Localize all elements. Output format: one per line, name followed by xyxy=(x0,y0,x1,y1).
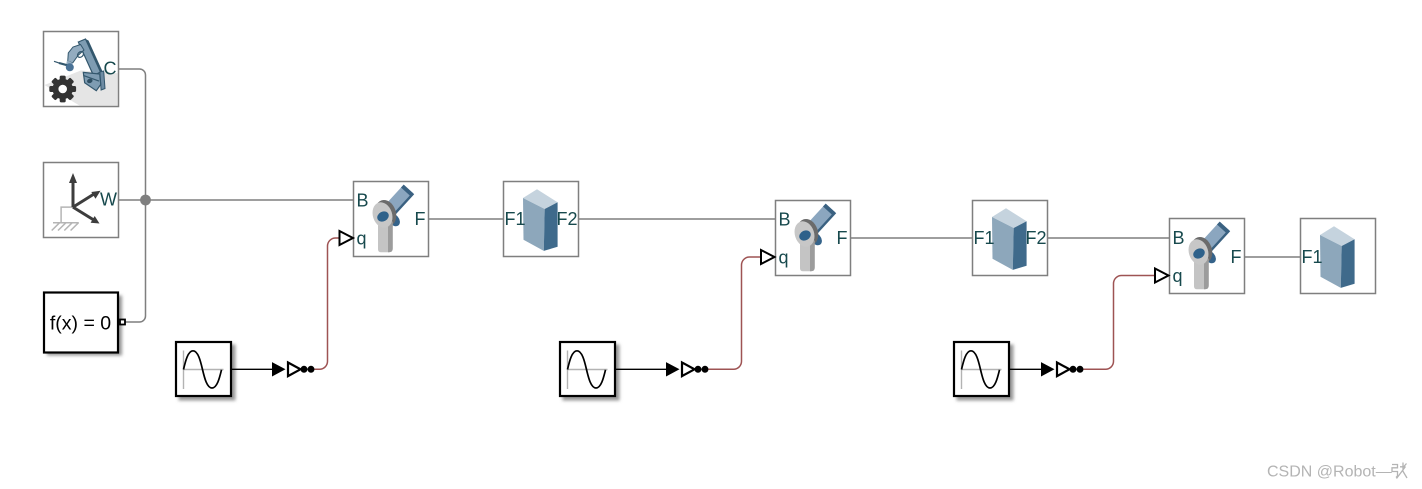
PS wire Converter 3 to Revolute Joint 3 q xyxy=(1084,276,1156,370)
svg-text:q: q xyxy=(1173,266,1183,286)
block Sine Wave 2 xyxy=(560,342,620,401)
wire Sine Wave 3 to Simulink-PS Converter 3 xyxy=(1010,368,1042,370)
block Sine Wave 3 xyxy=(954,342,1014,401)
wire Revolute Joint 2 F to Brick Solid 2 F1 xyxy=(851,237,973,239)
block Revolute Joint 1 xyxy=(354,182,429,257)
svg-text:F: F xyxy=(1231,247,1242,267)
solver port square xyxy=(120,320,125,325)
svg-text:B: B xyxy=(779,210,791,230)
svg-text:B: B xyxy=(1173,228,1185,248)
block Brick Solid 2 xyxy=(973,201,1048,276)
block Revolute Joint 3 xyxy=(1170,219,1245,294)
wire Brick Solid 2 F2 to Revolute Joint 3 B xyxy=(1048,237,1170,239)
wire Sine Wave 1 to Simulink-PS Converter 1 xyxy=(232,368,273,370)
svg-text:F: F xyxy=(837,228,848,248)
PS wire Converter 2 to Revolute Joint 2 q xyxy=(709,257,761,369)
wire Revolute Joint 3 F to Brick Solid 3 F1 xyxy=(1245,256,1301,258)
PS wire Converter 1 to Revolute Joint 1 q xyxy=(315,238,340,369)
svg-text:q: q xyxy=(779,248,789,268)
block World Frame xyxy=(44,163,119,238)
svg-text:C: C xyxy=(104,59,117,79)
svg-text:F1: F1 xyxy=(1302,247,1323,267)
wire Revolute Joint 1 F to Brick Solid 1 F1 xyxy=(429,218,504,220)
wire from Mechanism Configuration C port down to Solver port, vertical bus x=145.5 xyxy=(119,69,146,322)
svg-text:F2: F2 xyxy=(556,209,577,229)
wire from World Frame W port to Revolute Joint 1 B port xyxy=(119,199,354,201)
block Sine Wave 1 xyxy=(176,342,236,401)
junction node on conserving bus xyxy=(140,195,151,206)
wire Sine Wave 2 to Simulink-PS Converter 2 xyxy=(616,368,667,370)
block Brick Solid 1 xyxy=(504,182,579,257)
svg-text:f(x) = 0: f(x) = 0 xyxy=(50,313,111,335)
Simulink-PS Converter 1 xyxy=(272,362,315,376)
svg-text:W: W xyxy=(100,190,117,210)
block Revolute Joint 2 xyxy=(776,201,851,276)
svg-text:q: q xyxy=(357,229,367,249)
wire Brick Solid 1 F2 to Revolute Joint 2 B xyxy=(579,218,776,220)
block Solver Configuration f(x)=0 xyxy=(44,293,122,356)
input arrow at q port of Revolute Joint 1 xyxy=(340,231,354,245)
block Mechanism Configuration xyxy=(44,32,119,107)
input arrow at q port of Revolute Joint 2 xyxy=(761,250,775,264)
svg-text:F: F xyxy=(415,209,426,229)
input arrow at q port of Revolute Joint 3 xyxy=(1155,269,1169,283)
svg-text:CSDN @Robot—: CSDN @Robot— xyxy=(1267,464,1392,481)
svg-text:F1: F1 xyxy=(505,209,526,229)
Simulink-PS Converter 2 xyxy=(666,362,709,376)
svg-text:B: B xyxy=(357,191,369,211)
svg-text:F2: F2 xyxy=(1025,228,1046,248)
Simulink-PS Converter 3 xyxy=(1041,362,1084,376)
block Brick Solid 3 xyxy=(1301,219,1376,294)
svg-text:F1: F1 xyxy=(974,228,995,248)
watermark CSDN @Robot-zhang xyxy=(1267,463,1407,481)
